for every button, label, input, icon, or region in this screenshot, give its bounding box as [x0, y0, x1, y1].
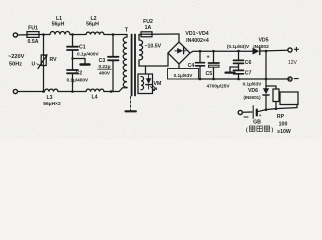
capacitor C3 wire from top rail: [112, 35, 114, 57]
varistor RV arrow: [38, 55, 47, 69]
wire L1 to L2: [70, 34, 86, 36]
svg-text:56μH×2: 56μH×2: [43, 101, 61, 107]
ground (C6/C7 midpoint): [230, 67, 239, 72]
capacitor C4 stub: [199, 51, 201, 62]
svg-text:0.5A: 0.5A: [28, 39, 39, 45]
capacitor C1 wire from top rail: [72, 35, 74, 47]
svg-text:VD5: VD5: [258, 38, 268, 44]
fuse FU1: [27, 32, 39, 38]
svg-text:VD6: VD6: [248, 88, 258, 94]
svg-text:FU1: FU1: [28, 26, 38, 32]
svg-text:0.22μ: 0.22μ: [99, 64, 111, 69]
transformer core ground bar: [126, 110, 136, 112]
wire FU1 to node A: [39, 34, 50, 36]
CJK chars drawn as glyph blocks: [250, 126, 270, 131]
svg-text:RP: RP: [277, 114, 285, 120]
inductor L4: [86, 89, 104, 91]
inductor L2: [86, 32, 104, 34]
node F junction (C3 bottom): [110, 90, 113, 93]
svg-text:56μH: 56μH: [86, 22, 99, 28]
capacitor C7: [234, 70, 244, 73]
output - terminal: [288, 77, 292, 81]
svg-text:≥10W: ≥10W: [277, 129, 291, 135]
wire L2 to transformer primary top: [104, 34, 127, 36]
LED VM triangle: [146, 78, 152, 84]
transformer T primary winding: [123, 35, 127, 88]
svg-text:4700μ/25V: 4700μ/25V: [207, 83, 231, 88]
transformer core ground dashed line: [130, 97, 132, 111]
wire C3 to bottom rail: [111, 61, 113, 92]
wire C2 to bottom rail: [72, 74, 74, 92]
diode VD6: [263, 88, 269, 94]
varistor RV body: [41, 55, 46, 66]
wire L4 to transformer primary bottom: [104, 88, 127, 92]
svg-text:C5: C5: [206, 71, 213, 77]
svg-text:T: T: [125, 28, 129, 34]
C4 value box: [168, 69, 199, 80]
negative rail: [199, 78, 291, 80]
svg-text:VD1~VD4: VD1~VD4: [185, 31, 208, 37]
svg-text:+: +: [207, 55, 210, 61]
battery minus mark: [244, 116, 248, 118]
svg-text:+: +: [259, 113, 262, 118]
svg-text:0.1μ/63V: 0.1μ/63V: [174, 73, 194, 78]
capacitor C5 stub: [213, 51, 215, 62]
svg-text:GB: GB: [253, 120, 261, 126]
positive rail (VD5 to + terminal): [260, 49, 288, 52]
wire battery to VD6/RP junctions: [257, 105, 297, 112]
svg-text:~10.5V: ~10.5V: [145, 44, 162, 50]
svg-text:(IN5001): (IN5001): [243, 95, 261, 100]
ground (C1/C2 midpoint): [73, 59, 86, 64]
node B junction (C1 top): [71, 33, 74, 36]
wire top rail: terminal to FU1: [18, 34, 27, 36]
wire C6 to C7: [238, 64, 240, 70]
wire battery terminal to battery: [243, 111, 253, 113]
wire FU2 to bridge top: [152, 33, 179, 35]
svg-text:0.1μ/400V: 0.1μ/400V: [67, 78, 90, 83]
bridge rectifier VD1-VD4 diamond: [168, 42, 190, 64]
junction C1-C2 midpoint: [71, 57, 73, 59]
varistor RV branch wire: [43, 35, 45, 56]
bridge bottom vertex stub: [178, 64, 180, 69]
node D junction (RV bottom): [42, 90, 45, 93]
wire bottom rail: terminal to L3: [18, 91, 45, 93]
svg-text:400V: 400V: [99, 71, 111, 76]
auxiliary rectangle at RP right: [280, 92, 298, 105]
output + terminal: [288, 48, 292, 52]
svg-text:12V: 12V: [288, 60, 298, 66]
input terminal bottom-left: [13, 89, 17, 93]
LED VM cathode bar: [146, 84, 152, 86]
svg-text:IN4002×4: IN4002×4: [186, 38, 209, 44]
svg-text:~220V: ~220V: [8, 54, 25, 60]
RP branch wire: [266, 86, 276, 89]
svg-text:RV: RV: [50, 57, 58, 63]
svg-text:0.1μ/400V: 0.1μ/400V: [77, 51, 100, 56]
indicator unit VM box stub: [145, 66, 147, 74]
VM winding inside box: [141, 77, 144, 90]
capacitor C3: [108, 57, 119, 61]
transformer T secondary winding (top): [139, 35, 143, 63]
capacitor C6: [234, 60, 244, 63]
svg-text:0.1μ/63V: 0.1μ/63V: [243, 82, 263, 87]
svg-text:56μH: 56μH: [52, 22, 65, 28]
battery terminal circle: [238, 110, 242, 114]
svg-text:VM: VM: [154, 81, 162, 87]
svg-text:IN4002: IN4002: [253, 44, 269, 50]
secondary top lead to FU2: [139, 34, 141, 36]
node C junction (C3 top): [112, 33, 115, 36]
svg-text:100: 100: [279, 121, 288, 127]
svg-text:C6: C6: [245, 60, 252, 66]
inductor L3: [45, 89, 59, 91]
svg-text:U: U: [32, 62, 36, 68]
battery GB plates: [252, 106, 254, 119]
bridge inner diode: [177, 48, 183, 54]
node E junction (C2 bottom): [71, 90, 74, 93]
LED VM emission arrows: [151, 85, 157, 90]
indicator unit VM box: [138, 74, 153, 94]
positive rail (bridge right vertex to VD5): [190, 51, 253, 53]
inductor L1: [50, 32, 70, 35]
capacitor C4: [196, 63, 205, 66]
value label 0.5A: [0, 0, 1, 1]
minus sign: [294, 78, 298, 80]
svg-text:L4: L4: [91, 95, 97, 101]
capacitor C1: [67, 47, 78, 50]
svg-text:(0.1μ/63)V: (0.1μ/63)V: [227, 44, 250, 49]
wire C1 to C2: [72, 51, 74, 70]
diode VD5: [253, 48, 260, 55]
fuse FU2: [141, 32, 152, 37]
transformer T core: [132, 35, 135, 96]
resistor RP body: [273, 89, 279, 102]
secondary bottom lead wire to bridge left: [139, 53, 168, 66]
svg-text:50Hz: 50Hz: [9, 62, 22, 68]
input terminal top-left: [13, 33, 17, 37]
svg-text:C2: C2: [76, 70, 83, 76]
bridge top vertex stub: [178, 34, 180, 42]
wire L3 to L4: [58, 91, 86, 93]
svg-text:C4: C4: [188, 63, 195, 69]
crossing junction on negative rail: [265, 78, 268, 81]
node A junction: [42, 33, 45, 36]
capacitor C6 stub: [238, 51, 240, 60]
svg-text:C1: C1: [79, 45, 86, 51]
plus sign: [294, 47, 298, 51]
svg-text:C7: C7: [245, 70, 252, 76]
battery branch vertical wire from + rail: [265, 51, 267, 86]
svg-text:1A: 1A: [145, 25, 152, 31]
capacitor C2: [67, 70, 78, 73]
capacitor C5 electrolytic: [209, 62, 220, 64]
svg-text:L3: L3: [46, 95, 52, 101]
